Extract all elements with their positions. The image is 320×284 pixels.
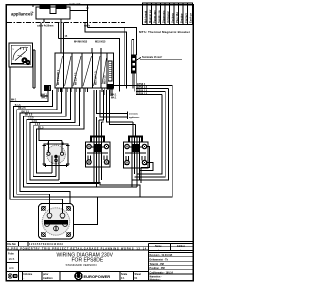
svg-text:Codfiervatio - 190.14: Codfiervatio - 190.14 (150, 271, 174, 274)
svg-text:EPS8 1.5: EPS8 1.5 (137, 92, 148, 95)
svg-text:Position - PM: Position - PM (150, 267, 165, 270)
wire nest left (10, 88, 172, 204)
title block (6, 242, 193, 282)
svg-text:Mth break: Mth break (143, 10, 147, 23)
svg-text:Magnet sw: Magnet sw (148, 9, 152, 23)
svg-text:appliances: appliances (129, 117, 140, 119)
svg-text:M4 1: M4 1 (11, 99, 17, 102)
svg-text:Breaker: Breaker (179, 13, 183, 23)
wire bottom steps (60, 183, 140, 197)
svg-text:M4.1: M4.1 (42, 97, 48, 100)
svg-text:M15 M15: M15 M15 (95, 41, 106, 44)
revision table (149, 244, 194, 281)
label M4.1 (42, 93, 48, 99)
svg-text:MTh: Thermal Magnetic Breaker: MTh: Thermal Magnetic Breaker (139, 30, 191, 34)
label terminals 16mm (137, 55, 183, 60)
socket P2 schuko (86, 137, 111, 168)
svg-text:Revision - 02.03.195: Revision - 02.03.195 (150, 254, 173, 257)
breaker MTh (36, 6, 70, 19)
logo europower (75, 272, 83, 280)
svg-text:Sheet: Sheet (135, 273, 142, 276)
voltmeter V1 (9, 43, 33, 67)
wires socket drops (52, 166, 141, 188)
socket P3 schuko (124, 137, 149, 169)
border frame (6, 5, 193, 281)
svg-text:M6 25A 2.5: M6 25A 2.5 (75, 72, 78, 85)
svg-text:Folm: Folm (8, 253, 14, 256)
wire breaker drops (33, 5, 61, 22)
svg-text:File Nm: File Nm (7, 243, 16, 246)
svg-text:Tolerint - PM: Tolerint - PM (150, 263, 164, 266)
wire M4.1 riser (41, 23, 48, 97)
wires socket3 feeders (107, 90, 136, 136)
labels above block (74, 41, 106, 44)
cable dash-dot (7, 22, 125, 24)
svg-text:Supply sw: Supply sw (157, 9, 161, 23)
svg-text:Diagnostc: Diagnostc (161, 10, 165, 23)
terminal strip X1 (132, 55, 137, 73)
legend table (143, 3, 193, 24)
svg-text:EUROPOWER: EUROPOWER (84, 274, 111, 279)
svg-text:A/4: A/4 (9, 266, 14, 270)
wire top feed with arrow (33, 4, 91, 28)
svg-text:Drilwametst - Th: Drilwametst - Th (150, 259, 169, 262)
wires cable drops to block (59, 23, 64, 54)
svg-text:Scale: Scale (121, 273, 128, 276)
wire jumper to terminal strip (132, 40, 134, 56)
wires meter (10, 50, 35, 101)
wire strain marks (91, 48, 102, 53)
svg-text:cable 4x16mm: cable 4x16mm (37, 25, 53, 28)
svg-text:M4 M6 M15: M4 M6 M15 (74, 41, 88, 44)
label M4.1 right (111, 93, 117, 99)
wire bus to right risers (59, 23, 137, 92)
svg-text:Earth pr: Earth pr (188, 13, 192, 23)
wires socket1 top feed (39, 126, 62, 141)
socket P1 round (43, 141, 70, 168)
svg-text:Edition: Edition (177, 245, 186, 248)
wire big socket right link (74, 197, 98, 225)
svg-text:A.PRO POWERTRY TRIO PROJECT RE: A.PRO POWERTRY TRIO PROJECT RETAILGARAGE… (7, 248, 147, 251)
svg-text:Informe: Informe (24, 273, 33, 276)
svg-text:M15 1.5: M15 1.5 (104, 75, 107, 84)
scale col (6, 250, 18, 281)
svg-text:terminals: terminals (129, 112, 139, 115)
svg-text:1 2 3 4 5 6 7 8 9 10 11 12 13: 1 2 3 4 5 6 7 8 9 10 11 12 13 14 (29, 243, 63, 246)
wire nest labels (11, 99, 44, 130)
socket P4 CEE (39, 204, 74, 240)
wires terminals appliances stubs (97, 90, 141, 119)
svg-text:Terminals 16 mm²: Terminals 16 mm² (142, 55, 162, 59)
svg-text:Contact: Contact (184, 13, 188, 23)
svg-text:M4 POWER 1: M4 POWER 1 (57, 69, 60, 85)
svg-text:cable: cable (84, 25, 91, 28)
svg-text:Materion -: Materion - (150, 278, 162, 281)
wires right stubs EPS8 (114, 73, 173, 95)
svg-text:tradition: tradition (43, 277, 53, 280)
relay aux below block (45, 86, 51, 91)
wires socket2 feeders (94, 90, 104, 136)
svg-text:STANDARD VERSION: STANDARD VERSION (66, 263, 97, 267)
svg-text:16.5: 16.5 (9, 257, 15, 261)
svg-text:M4.1: M4.1 (111, 97, 117, 100)
svg-text:M15 16A 1.5: M15 16A 1.5 (95, 71, 98, 85)
svg-text:Sockets: Sockets (170, 12, 174, 23)
svg-text:Voltmeter: Voltmeter (166, 11, 170, 23)
wires right nest down (132, 86, 172, 197)
svg-text:supply cable: supply cable (69, 4, 80, 6)
wire comb stubs under block (58, 88, 112, 96)
svg-text:Fuses aux: Fuses aux (152, 10, 156, 23)
contactor block K1 (55, 53, 114, 89)
svg-text:prior: prior (43, 273, 49, 276)
svg-text:Plug 16A: Plug 16A (175, 12, 179, 23)
bottom row (6, 250, 148, 281)
projection symbol (8, 274, 17, 278)
